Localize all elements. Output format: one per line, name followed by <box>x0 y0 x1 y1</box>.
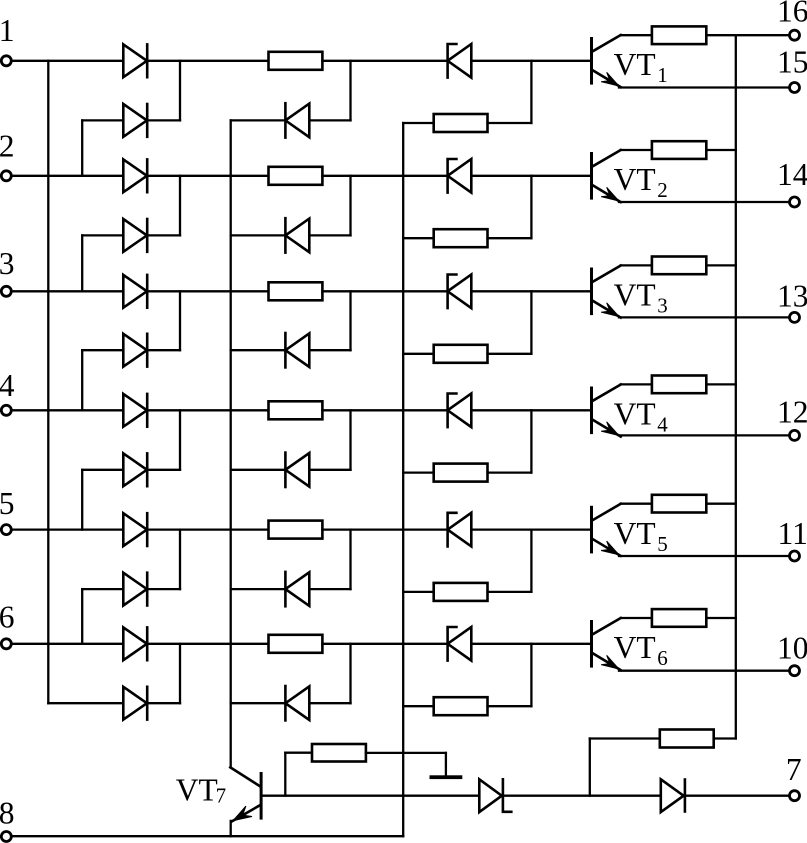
svg-text:VT: VT <box>614 516 656 551</box>
svg-text:VT: VT <box>614 47 656 82</box>
svg-text:6: 6 <box>657 646 668 670</box>
svg-text:VT: VT <box>614 162 656 197</box>
svg-text:14: 14 <box>777 157 807 192</box>
svg-text:4: 4 <box>0 368 15 403</box>
svg-text:VT: VT <box>614 278 656 313</box>
svg-text:VT: VT <box>614 397 656 432</box>
svg-text:5: 5 <box>657 532 668 556</box>
svg-text:3: 3 <box>0 246 14 281</box>
svg-text:16: 16 <box>777 0 807 28</box>
svg-text:3: 3 <box>657 294 668 318</box>
svg-text:1: 1 <box>657 63 668 87</box>
svg-text:5: 5 <box>0 486 14 521</box>
svg-text:15: 15 <box>777 45 807 80</box>
svg-text:10: 10 <box>777 631 807 666</box>
svg-text:2: 2 <box>0 128 14 163</box>
svg-text:4: 4 <box>657 413 668 437</box>
svg-text:7: 7 <box>786 752 802 787</box>
svg-text:13: 13 <box>777 278 807 313</box>
svg-text:7: 7 <box>216 783 227 807</box>
svg-text:6: 6 <box>0 599 14 634</box>
svg-text:1: 1 <box>0 13 14 48</box>
svg-text:11: 11 <box>778 516 807 551</box>
svg-text:8: 8 <box>0 796 14 831</box>
svg-text:VT: VT <box>176 773 218 808</box>
svg-text:VT: VT <box>614 630 656 665</box>
svg-text:12: 12 <box>777 395 807 430</box>
svg-text:2: 2 <box>657 178 668 202</box>
